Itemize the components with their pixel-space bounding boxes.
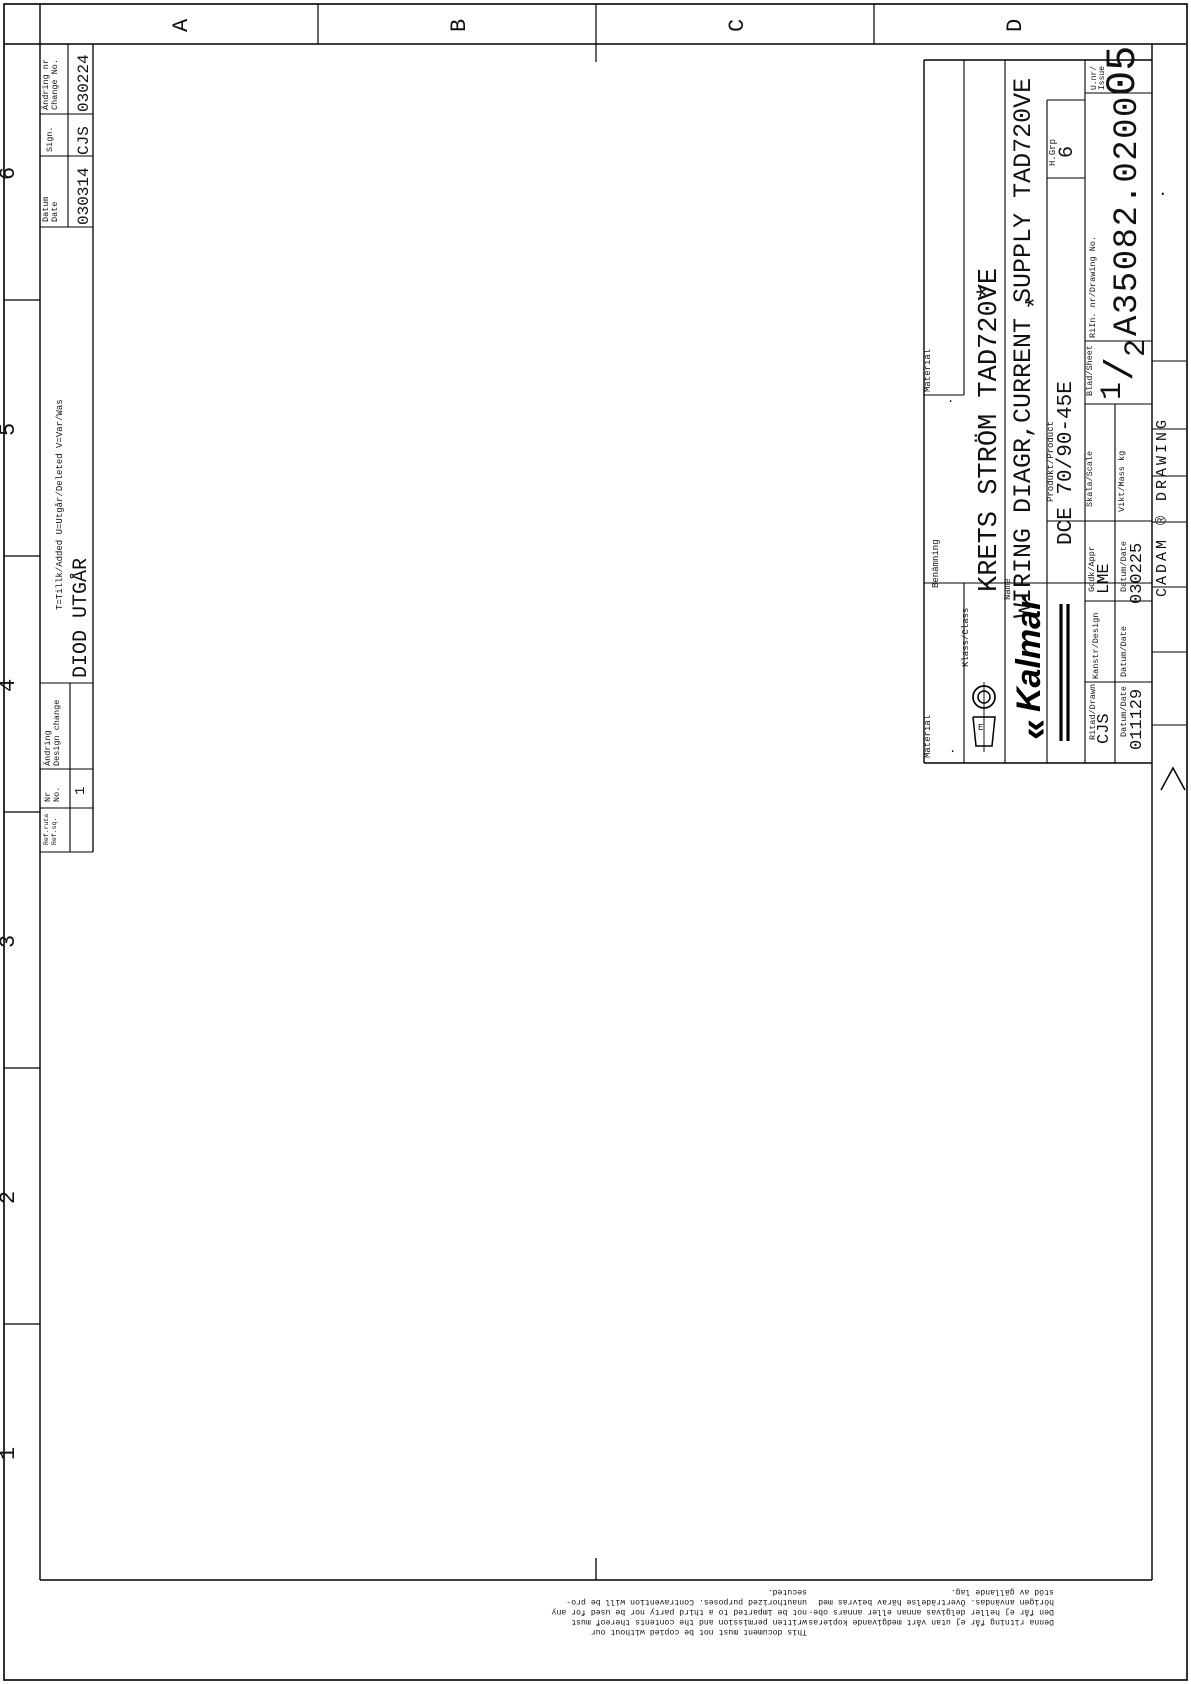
svg-text:1: 1 [0,1447,21,1460]
svg-text:Sign.: Sign. [45,126,55,152]
svg-text:Material: Material [923,349,933,392]
svg-text:2: 2 [0,1191,21,1204]
svg-text:1: 1 [1096,382,1130,400]
bottom centre fold tick [595,1558,597,1580]
svg-text:T=Tillk/Added U=Utgår/Deleted: T=Tillk/Added U=Utgår/Deleted V=Var/Was [55,399,65,610]
svg-text:Blad/Sheet: Blad/Sheet [1085,345,1095,396]
svg-text:CJS: CJS [1095,713,1114,744]
svg-text:DIOD UTGÅR: DIOD UTGÅR [70,558,93,678]
svg-text:.: . [949,742,956,756]
svg-text:RiIn. nr/Drawing No.: RiIn. nr/Drawing No. [1088,236,1098,338]
svg-text:Den får ej heller delgivas ann: Den får ej heller delgivas annan eller a… [808,1607,1054,1617]
svg-text:Kalmar: Kalmar [1010,595,1048,712]
inner drawing frame [39,4,41,1580]
svg-text:Design change: Design change [52,700,62,766]
svg-text:030224: 030224 [75,54,93,112]
svg-text:A: A [169,18,194,32]
svg-text:011129: 011129 [1128,689,1147,750]
svg-text:KRETS STRÖM TAD720VE: KRETS STRÖM TAD720VE [973,268,1005,592]
svg-text:Ref.sq.: Ref.sq. [51,818,58,845]
svg-text:written permission and the con: written permission and the contents ther… [571,1617,807,1627]
svg-text:E: E [978,723,983,733]
svg-text:This document must not be copi: This document must not be copied without… [591,1627,807,1637]
svg-text:/: / [1100,357,1145,381]
svg-text:A35082.0200: A35082.0200 [1109,95,1147,336]
svg-text:5: 5 [0,423,21,436]
revision table section 1 [40,113,93,115]
svg-text:Kanstr/Design: Kanstr/Design [1091,613,1101,679]
svg-text:Benämning: Benämning [931,539,941,588]
svg-text:stöd av gällande lag.: stöd av gällande lag. [951,1587,1054,1597]
svg-text:hörigen användas. Överträdelse: hörigen användas. Överträdelse härav bei… [818,1597,1054,1608]
svg-text:.: . [947,392,954,406]
zone letter ticks top [317,4,319,44]
svg-text:WIRING DIAGR,CURRENT SUPPLY TA: WIRING DIAGR,CURRENT SUPPLY TAD720VE [1009,78,1038,618]
svg-text:030314: 030314 [75,167,93,225]
E approval symbol [973,686,995,708]
svg-text:4: 4 [0,679,21,692]
svg-text:2: 2 [1120,339,1154,357]
svg-text:B: B [447,19,472,32]
svg-text:030225: 030225 [1128,543,1147,604]
svg-text:CADAM ® DRAWING: CADAM ® DRAWING [1154,417,1171,597]
svg-text:05: 05 [1099,46,1147,96]
svg-text:6: 6 [0,167,21,180]
svg-text:Change No.: Change No. [50,59,60,110]
svg-text:secuted.: secuted. [768,1587,807,1597]
svg-text:Datum/Date: Datum/Date [1119,626,1129,677]
zone number ticks left [4,299,40,301]
svg-text:C: C [725,19,750,32]
svg-text:not be imparted to a third par: not be imparted to a third party nor be … [551,1607,807,1617]
svg-text:Ref.ruta: Ref.ruta [43,814,50,845]
svg-text:LME: LME [1095,563,1114,594]
svg-text:Denna ritning får ej utan vårt: Denna ritning får ej utan vårt medgivand… [803,1617,1054,1627]
svg-text:*: * [1022,295,1051,310]
sheet 1/2 [1096,339,1154,400]
svg-text:3: 3 [0,935,21,948]
svg-text:.: . [1158,182,1168,200]
svg-text:*: * [975,284,1005,300]
title block frame [924,59,1152,61]
svg-text:Date: Date [50,202,60,222]
svg-text:Klass/Class: Klass/Class [961,608,971,667]
svg-text:Vikt/Mass kg: Vikt/Mass kg [1117,451,1127,512]
svg-text:«: « [1013,720,1055,740]
svg-text:unauthorized purposes. Contrav: unauthorized purposes. Contravention wil… [566,1597,807,1607]
svg-text:6: 6 [1056,146,1079,158]
svg-text:Material: Material [923,715,933,758]
svg-text:Skala/Scale: Skala/Scale [1085,451,1095,507]
svg-text:1: 1 [73,787,89,795]
title block small boxes right strip [1152,360,1186,362]
svg-text:DCE 70/90-45E: DCE 70/90-45E [1055,381,1078,545]
svg-text:CJS: CJS [75,126,93,155]
fold arrow mark [1161,768,1185,790]
svg-text:No.: No. [52,787,62,802]
Kalmar logo [1010,595,1055,740]
svg-text:D: D [1003,19,1028,32]
